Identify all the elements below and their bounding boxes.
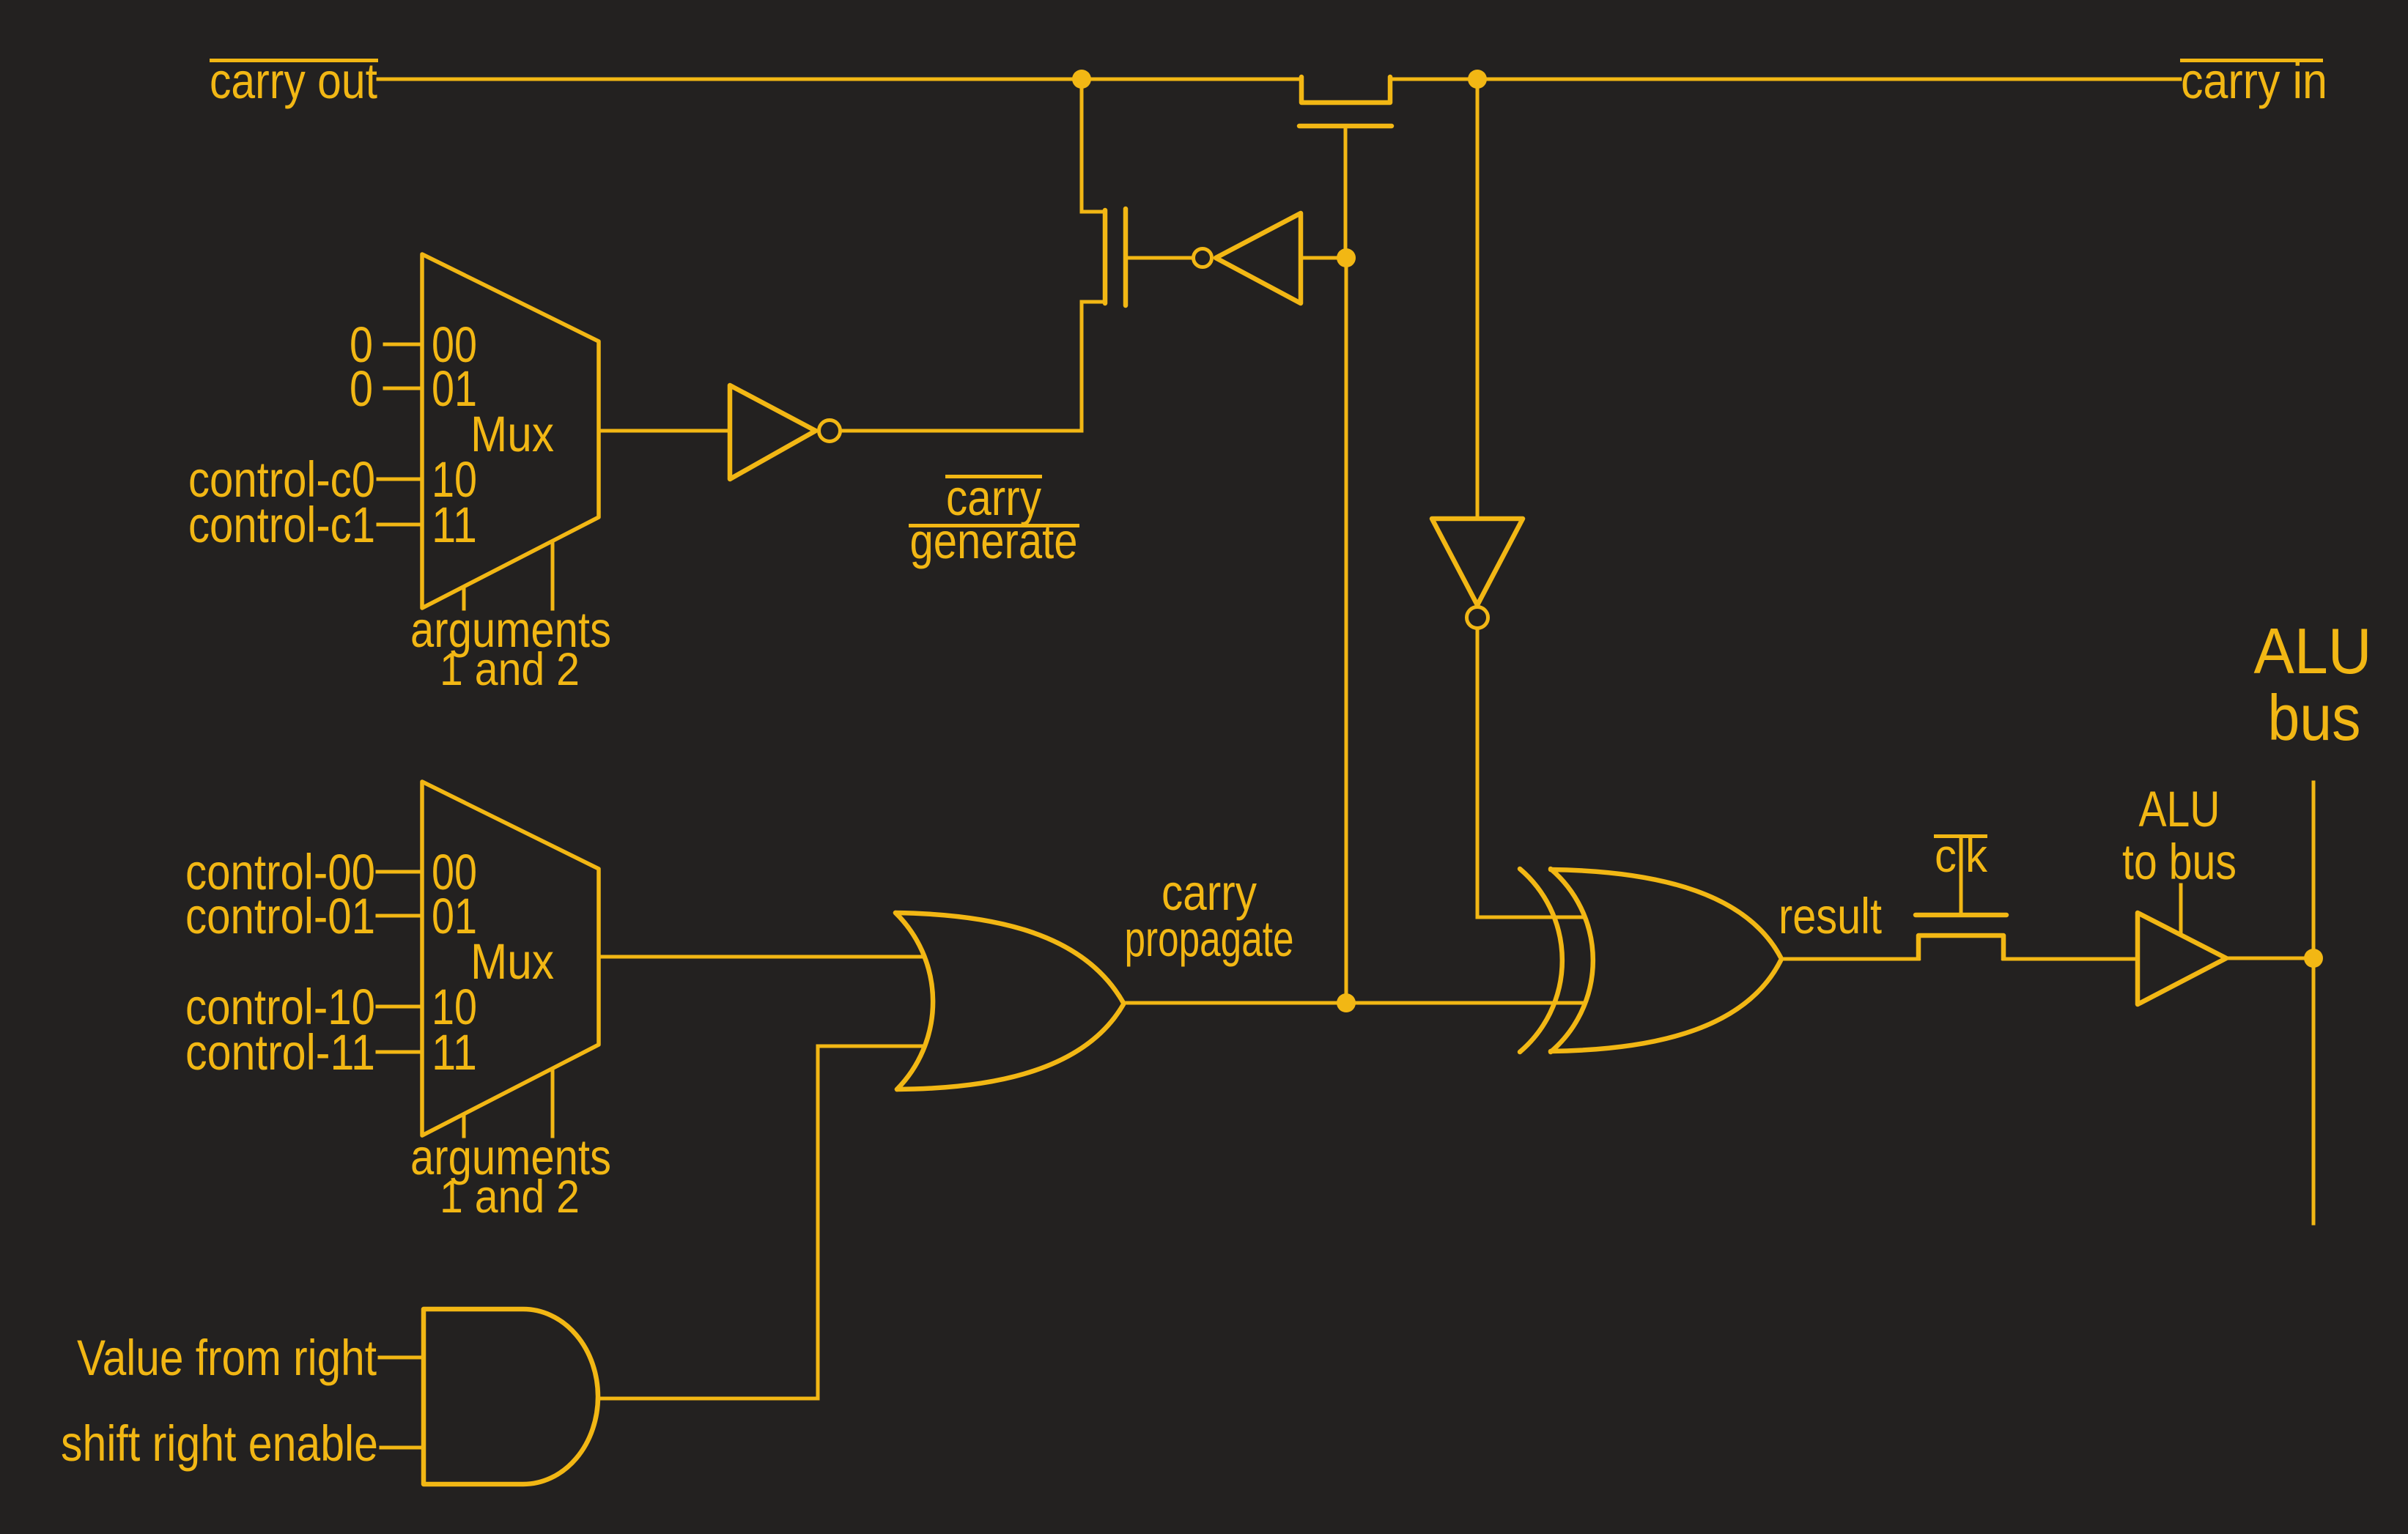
- label generate rule: [909, 524, 1079, 527]
- svg-text:control-c1: control-c1: [188, 497, 375, 553]
- XOR gate X1 back arc: [1520, 869, 1562, 1052]
- transistor Q1 gate bar: [1299, 124, 1392, 129]
- svg-text:11: 11: [432, 1024, 477, 1081]
- wire long vertical to carry-propagate line: [1345, 258, 1348, 1003]
- svg-text:result: result: [1779, 888, 1882, 944]
- inverter U1 (carry generate): [730, 385, 816, 479]
- svg-text:0: 0: [350, 360, 373, 417]
- transistor Q1 channel (pass transistor in carry line): [1301, 77, 1390, 103]
- wire carry line top: [378, 78, 1301, 81]
- wire Q2 source down to carry-generate line: [1082, 302, 1104, 431]
- svg-text:generate: generate: [910, 513, 1078, 569]
- wire Q3 to buffer: [2003, 957, 2138, 961]
- wire M1 argument tick 1: [462, 588, 466, 609]
- wire M2 input 01: [377, 914, 422, 918]
- wire M1 output: [599, 429, 730, 433]
- svg-text:carry in: carry in: [2181, 53, 2327, 109]
- svg-text:to bus: to bus: [2122, 834, 2237, 890]
- wire M1 input 11: [378, 523, 422, 527]
- wire carry-in vertical: [1476, 79, 1480, 519]
- transistor Q3 channel (clk pass transistor): [1918, 935, 2003, 960]
- wire M2 output to OR: [599, 955, 924, 959]
- node junction propagate: [1337, 993, 1356, 1012]
- svg-text:Value from right: Value from right: [77, 1330, 377, 1386]
- svg-text:shift right enable: shift right enable: [61, 1415, 378, 1472]
- label clk overline: [1934, 834, 1987, 838]
- inverter U3 (downward): [1432, 519, 1523, 605]
- wire ALU bus: [2312, 782, 2316, 1223]
- wire M1 input 00: [385, 343, 422, 347]
- wire M1 input 01: [385, 387, 422, 390]
- wire Q2 gate lead: [1129, 256, 1192, 260]
- svg-text:control-11: control-11: [185, 1024, 375, 1081]
- label carry-generate overline: [945, 475, 1042, 478]
- wire Q3 gate lead: [1960, 840, 1963, 915]
- wire U1 output to Q2 source: [841, 429, 1082, 433]
- wire M2 input 00: [377, 870, 422, 874]
- mux M2 body: [422, 782, 599, 1135]
- OR gate O1 (carry propagate): [895, 913, 933, 1089]
- transistor Q2 channel (vertical pass transistor): [1103, 210, 1108, 303]
- wire U3 output down and into XOR: [1477, 629, 1584, 917]
- node carry-in label: [2180, 53, 2327, 109]
- node carry-out label: [210, 53, 378, 109]
- wire U2 input: [1301, 256, 1346, 260]
- svg-text:1 and 2: 1 and 2: [440, 1171, 580, 1223]
- wire X1 output to clk transistor: [1783, 957, 1918, 961]
- wire Q1 gate to inverter input node: [1344, 128, 1348, 258]
- wire A1 input 1: [380, 1356, 424, 1360]
- wire U4 output: [2226, 957, 2313, 960]
- svg-text:11: 11: [432, 497, 477, 553]
- wire M2 argument tick 1: [462, 1116, 466, 1136]
- transistor Q3 gate bar: [1916, 913, 2006, 918]
- wire Q2 drain from carry line: [1082, 79, 1104, 212]
- wire M1 argument tick 2: [551, 542, 555, 609]
- XOR gate X1 body: [1551, 869, 1593, 1052]
- svg-text:ALU: ALU: [2139, 781, 2220, 837]
- wire M2 input 10: [377, 1005, 422, 1009]
- AND gate A1: [424, 1309, 598, 1484]
- wire M2 input 11: [377, 1051, 422, 1054]
- node junction U2 input / Q1 gate / propagate drop: [1337, 248, 1356, 267]
- wire M2 argument tick 2: [551, 1070, 555, 1136]
- wire M1 input 10: [378, 478, 422, 481]
- svg-text:k: k: [1965, 829, 1988, 882]
- node junction ALU bus: [2304, 949, 2323, 968]
- svg-text:c: c: [1935, 829, 1957, 882]
- svg-text:Mux: Mux: [470, 406, 554, 462]
- inverter U2 (left-pointing, drives Q2 gate): [1194, 249, 1212, 267]
- svg-text:bus: bus: [2268, 681, 2361, 754]
- wire O1 output / carry propagate line: [1123, 1001, 1584, 1005]
- node junction carry-out/Q2: [1072, 70, 1091, 89]
- wire A1 input 2: [381, 1446, 424, 1450]
- mux M1 body: [422, 254, 599, 608]
- node junction carry-in drop: [1468, 70, 1487, 89]
- buffer U4 (ALU to bus): [2138, 913, 2226, 1004]
- wire carry line top right: [1390, 78, 2180, 81]
- svg-text:carry out: carry out: [210, 53, 377, 109]
- svg-text:ALU: ALU: [2254, 615, 2372, 687]
- wire A1 output to OR: [598, 1046, 923, 1398]
- svg-text:1 and 2: 1 and 2: [440, 644, 580, 695]
- svg-text:propagate: propagate: [1125, 911, 1294, 967]
- transistor Q2 gate bar: [1123, 209, 1129, 305]
- wire U4 enable lead: [2179, 885, 2183, 935]
- svg-text:control-01: control-01: [185, 888, 375, 944]
- svg-text:Mux: Mux: [470, 933, 554, 990]
